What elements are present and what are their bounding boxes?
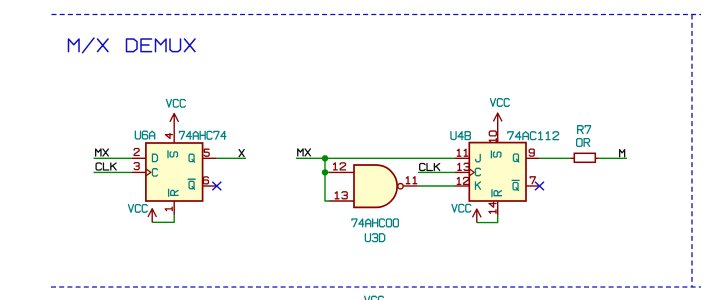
U6A value 74AHC74 bbox=[179, 131, 225, 139]
U6A pin name Sbar (rotated) bbox=[168, 151, 178, 158]
sheet border right (dashed) bbox=[691, 15, 693, 288]
U4B pin 9 Q bbox=[526, 157, 540, 159]
U4B pin 7 Qbar bbox=[526, 185, 538, 187]
wire U6A pin 5 to X bbox=[217, 157, 246, 159]
NAND pin 13 bbox=[330, 200, 355, 202]
sheet border bottom (dashed) bbox=[51, 286, 701, 288]
U6A pin 5 bbox=[203, 157, 217, 159]
U4B pin 10 (Set, top) bbox=[497, 129, 499, 143]
U6A pin 2 bbox=[132, 157, 146, 159]
U6A pin name Rbar (rotated) bbox=[169, 189, 179, 196]
sheet border top (dashed) bbox=[52, 14, 702, 16]
VCC power symbol below U6A bbox=[151, 209, 153, 223]
wire MX to U4B pin 11 bbox=[296, 157, 455, 159]
U6A reference U6A bbox=[135, 131, 154, 139]
U3D value 74AHC00 bbox=[352, 219, 398, 227]
U4B value 74AC112 bbox=[508, 132, 559, 140]
U6A pin 3 (clock) bbox=[132, 171, 146, 173]
label M bbox=[620, 150, 625, 157]
NAND gate U3D body bbox=[354, 165, 397, 207]
wire CLK to U6A pin 3 bbox=[94, 171, 133, 173]
U4B pin name J bbox=[476, 154, 481, 161]
VCC power symbol below U4B bbox=[476, 209, 478, 223]
flip-flop U6A body bbox=[146, 143, 203, 201]
wire MX branch down bbox=[324, 158, 326, 172]
NAND output bubble bbox=[398, 184, 403, 189]
label CLK (right) bbox=[420, 164, 440, 171]
R7 value 0R bbox=[577, 139, 590, 147]
U6A pin 4 (Set, top) bbox=[173, 129, 175, 143]
wire U6A pin 1 to VCC bbox=[152, 215, 174, 222]
wire down to NAND pin 13 bbox=[325, 172, 330, 201]
clipped VCC text at bottom edge bbox=[365, 296, 384, 300]
U4B clock mark bbox=[469, 169, 474, 176]
resistor R7 bbox=[570, 157, 574, 159]
VCC text below U4B bbox=[452, 204, 471, 212]
U3D reference U3D bbox=[365, 234, 384, 242]
U4B pin 12 K bbox=[455, 185, 469, 187]
U6A pin name Qbar bbox=[188, 179, 195, 189]
label MX (left) bbox=[96, 149, 109, 156]
U6A pin name Q bbox=[189, 154, 194, 162]
R7 reference R7 bbox=[578, 126, 591, 134]
U6A pin 1 (Reset, bottom) bbox=[173, 201, 175, 215]
no-connect cross on U4B pin 7 bbox=[535, 182, 544, 191]
VCC power symbol above U4B bbox=[497, 113, 499, 129]
NAND pin 11 (output) bbox=[404, 185, 418, 187]
VCC text above U6A bbox=[166, 100, 185, 108]
NAND pin 12 bbox=[330, 171, 355, 173]
label CLK (left) bbox=[96, 163, 116, 170]
junction at NAND input branch bbox=[322, 169, 328, 175]
U4B pin name C bbox=[475, 168, 480, 175]
label MX (middle) bbox=[298, 149, 311, 156]
U4B pin 14 (Reset, bottom) bbox=[497, 201, 499, 215]
wire to NAND pin 12 bbox=[325, 171, 330, 173]
U4B pin name Qbar bbox=[512, 180, 519, 190]
wire R7 to M bbox=[599, 157, 627, 159]
U6A clock mark bbox=[146, 169, 151, 176]
wire CLK to U4B pin 13 bbox=[418, 171, 455, 173]
junction on MX wire bbox=[322, 155, 328, 161]
U4B pin name Sbar (rotated) bbox=[491, 151, 501, 158]
VCC power symbol above U6A bbox=[173, 113, 175, 128]
wire U4B pin 9 to R7 bbox=[540, 157, 571, 159]
VCC text above U4B bbox=[490, 99, 509, 107]
wire NAND output to U4B pin 12 bbox=[418, 185, 455, 187]
U4B reference U4B bbox=[451, 132, 470, 140]
U6A pin name D bbox=[152, 154, 157, 161]
U6A pin 6 bbox=[203, 185, 217, 187]
U4B pin name Q bbox=[513, 154, 518, 162]
flip-flop U4B body bbox=[469, 143, 526, 201]
U6A pin name C bbox=[152, 169, 157, 176]
no-connect cross on U6A pin 6 bbox=[212, 182, 221, 191]
U4B pin name K bbox=[475, 182, 480, 189]
VCC text below U6A bbox=[128, 205, 147, 213]
wire MX to U6A pin 2 bbox=[94, 157, 133, 159]
wire U4B pin 14 to VCC bbox=[477, 215, 498, 223]
label X bbox=[239, 150, 244, 157]
title M/X DEMUX bbox=[69, 38, 196, 53]
U4B pin 11 J bbox=[455, 157, 469, 159]
U4B pin name Rbar (rotated) bbox=[492, 190, 502, 197]
U4B pin 13 (clock) bbox=[455, 171, 469, 173]
